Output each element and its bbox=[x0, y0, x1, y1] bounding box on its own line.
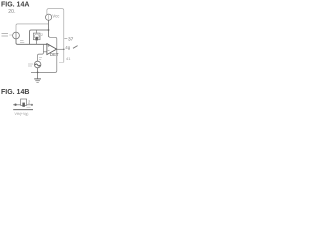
svg-text:FIG. 14B: FIG. 14B bbox=[1, 89, 29, 96]
svg-text:DET: DET bbox=[50, 52, 59, 57]
svg-text:2: 2 bbox=[41, 33, 43, 37]
svg-text:41: 41 bbox=[66, 56, 71, 61]
svg-text:Vcc: Vcc bbox=[52, 14, 59, 19]
svg-text:4g: 4g bbox=[65, 45, 70, 50]
svg-text:FIG. 14A: FIG. 14A bbox=[1, 2, 29, 9]
svg-text:20.: 20. bbox=[8, 9, 16, 15]
svg-text:Vth(+Vg): Vth(+Vg) bbox=[15, 112, 29, 116]
svg-text:37: 37 bbox=[68, 36, 74, 42]
